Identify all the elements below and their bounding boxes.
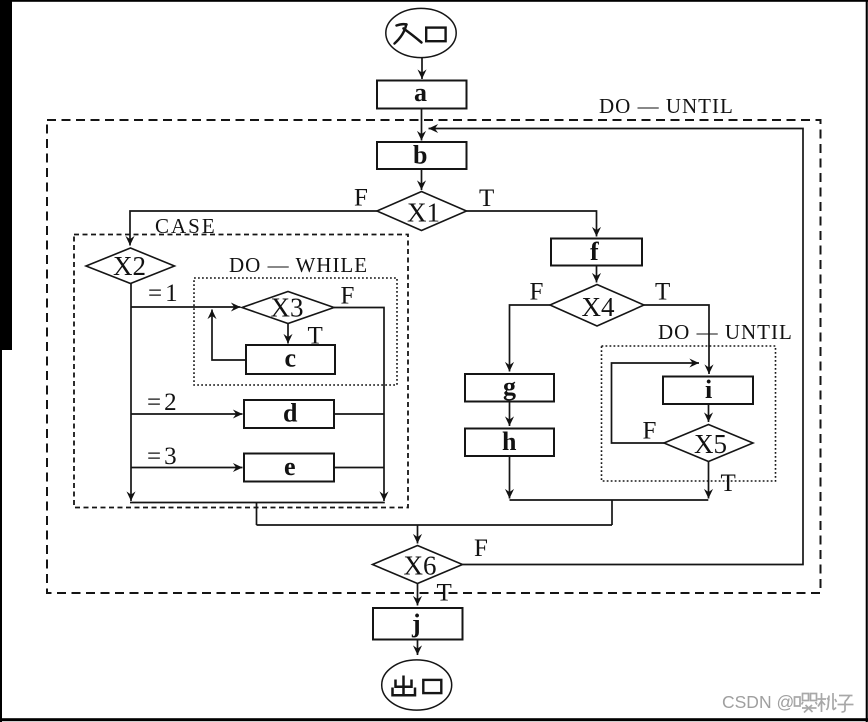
page border: right line [866,0,868,722]
outer dashed box DO-UNTIL [47,120,821,593]
box d [244,400,334,428]
glyph kou (mouth) [426,28,445,42]
svg-text:X2: X2 [113,251,146,281]
diamond X4 [550,285,644,327]
page border: left thin line [0,350,2,722]
wire h to right collector [509,456,511,499]
wire CASE collector [130,502,385,504]
svg-text:CASE: CASE [155,214,217,238]
svg-text:F: F [643,418,657,445]
wire c loop back up [212,310,246,361]
dotted box DO-WHILE [194,278,397,385]
wire X5 F loop back to i input [612,363,700,443]
watermark glyph ying [795,694,818,713]
glyph ru (enter) [395,24,422,43]
svg-text:X5: X5 [694,429,727,459]
wire a to b [421,109,423,141]
wire =1 branch to X3 [131,306,241,308]
diamond X5 [664,425,753,462]
box h [465,429,554,457]
svg-text:T: T [479,185,494,212]
svg-text:X1: X1 [407,198,440,228]
wire j to exit [417,640,419,656]
svg-text:T: T [437,580,452,607]
glyph chu (exit) [393,676,416,696]
svg-text:X4: X4 [582,292,615,322]
svg-text:=3: =3 [147,443,180,470]
watermark glyph zi [838,696,854,713]
svg-text:DO — UNTIL: DO — UNTIL [658,320,793,344]
box g [465,374,554,402]
wire X4 T to i [644,305,709,374]
wire X1 F to X2 [130,211,377,246]
diamond X2 [86,248,175,284]
svg-text:a: a [414,78,427,107]
wire =2 branch to d [131,413,243,415]
wire X1 T to f [467,211,597,237]
diamond X6 [373,546,463,584]
terminal ellipse entry (ru-kou) [386,8,456,57]
svg-text:=2: =2 [147,389,180,416]
svg-text:DO — UNTIL: DO — UNTIL [599,94,734,118]
svg-text:g: g [503,372,516,401]
svg-text:F: F [354,185,368,212]
dashed box CASE [74,235,408,508]
wire d to X3F rail [334,413,384,415]
watermark glyph tao [818,693,837,712]
page border: bottom line [0,718,868,721]
box b [377,142,467,169]
svg-text:X6: X6 [404,551,437,581]
box c [246,345,335,374]
wire X6 F feedback loop to b input [429,129,804,565]
wire X4 F to g [510,305,551,372]
wire i to X5 [708,404,710,422]
svg-text:i: i [705,375,712,404]
wire f to X4 [596,266,598,283]
box j [373,608,463,640]
box i [663,377,753,405]
svg-text:F: F [341,283,355,310]
dotted box DO-UNTIL (right) [602,346,776,481]
wire b to X1 [421,169,423,190]
wire g to h [509,402,511,427]
page border: left black bar [0,0,12,350]
wire lower join rail [257,524,613,526]
box a [377,81,467,109]
svg-text:c: c [285,344,297,373]
svg-text:X3: X3 [271,293,304,323]
wire join to X6 [417,525,419,544]
box e [244,454,334,482]
svg-text:d: d [283,399,298,428]
svg-text:T: T [721,470,736,497]
wire collector drop [256,503,258,526]
box f [551,239,642,266]
wire entry to a [421,58,423,80]
wire X3 F down to collector [334,308,384,502]
svg-text:h: h [502,427,517,456]
wire right collector drop [611,500,613,525]
diamond X3 [242,292,334,324]
svg-text:f: f [590,237,599,266]
wire X3 T to c [287,324,289,344]
page border: top line [0,0,868,2]
svg-text:j: j [411,609,421,638]
terminal ellipse exit (chu-kou) [382,660,452,710]
svg-text:F: F [530,279,544,306]
wire e to X3F rail [334,467,384,469]
wire =3 branch to e [131,467,243,469]
wire right collector [510,499,709,501]
svg-text:=1: =1 [148,280,181,307]
svg-text:T: T [655,279,670,306]
wire X2 down to collector [130,284,132,502]
diamond X1 [377,192,467,231]
svg-text:DO — WHILE: DO — WHILE [229,253,368,277]
svg-text:F: F [474,535,488,562]
wire X5 T to right collector [708,462,710,499]
svg-text:CSDN @: CSDN @ [722,692,794,712]
glyph kou (exit mouth) [423,680,441,693]
svg-text:e: e [284,452,296,481]
svg-text:b: b [413,141,427,170]
wire X6 T to j [417,584,419,606]
